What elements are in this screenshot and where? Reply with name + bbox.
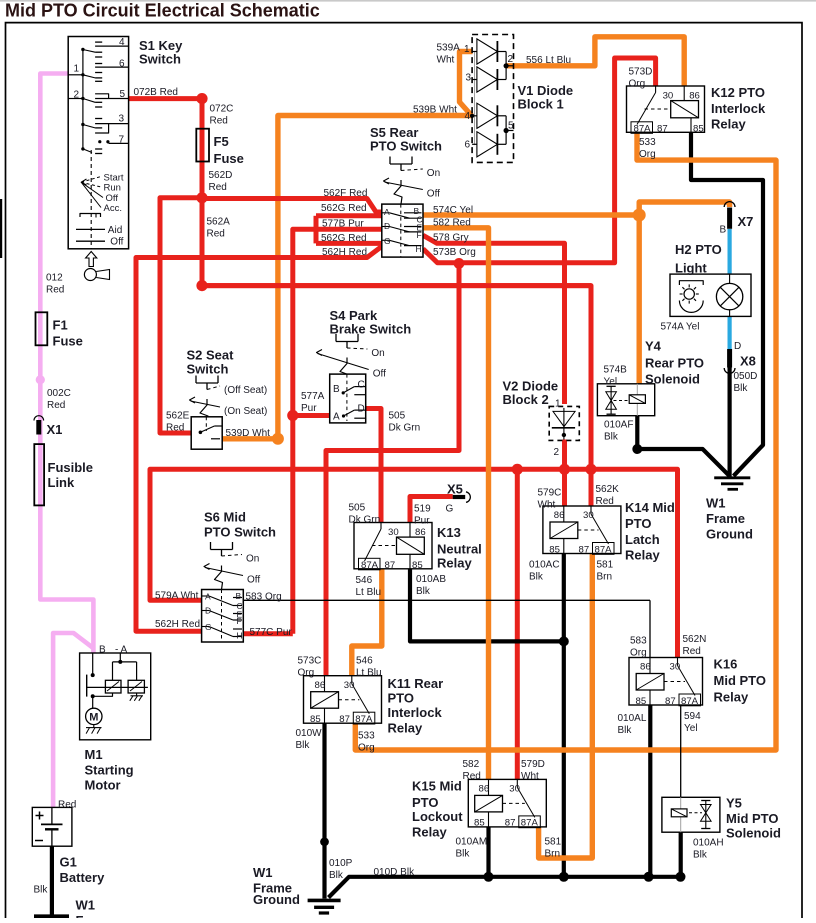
svg-text:PTO Switch: PTO Switch xyxy=(370,139,442,154)
svg-text:K15 Mid: K15 Mid xyxy=(412,778,462,793)
svg-text:Fuse: Fuse xyxy=(214,151,244,166)
svg-text:Light: Light xyxy=(675,261,707,276)
svg-text:Y5: Y5 xyxy=(726,796,742,811)
svg-text:574B: 574B xyxy=(604,365,628,376)
svg-text:A: A xyxy=(205,592,211,602)
svg-text:010P: 010P xyxy=(329,858,353,869)
svg-text:86: 86 xyxy=(640,662,651,673)
svg-text:3: 3 xyxy=(119,113,125,124)
svg-text:B: B xyxy=(333,384,340,395)
svg-text:7: 7 xyxy=(119,135,125,146)
svg-text:072B Red: 072B Red xyxy=(134,87,178,98)
svg-text:579A Wht: 579A Wht xyxy=(155,591,199,602)
svg-text:2: 2 xyxy=(74,90,80,101)
svg-text:87A: 87A xyxy=(595,544,613,555)
svg-text:G: G xyxy=(205,622,212,632)
svg-text:86: 86 xyxy=(315,680,326,691)
svg-text:5: 5 xyxy=(120,89,126,100)
svg-text:5: 5 xyxy=(508,121,514,132)
svg-text:1: 1 xyxy=(74,64,80,75)
svg-text:546: 546 xyxy=(356,656,373,667)
svg-text:H: H xyxy=(416,244,422,254)
svg-text:87: 87 xyxy=(339,714,350,725)
svg-text:3: 3 xyxy=(466,73,472,84)
svg-text:Fuse: Fuse xyxy=(53,334,83,349)
svg-text:Blk: Blk xyxy=(604,432,619,443)
svg-text:4: 4 xyxy=(465,111,471,122)
svg-text:562G Red: 562G Red xyxy=(321,233,367,244)
svg-text:Interlock: Interlock xyxy=(711,101,766,116)
svg-text:Acc.: Acc. xyxy=(104,203,122,214)
svg-text:574A Yel: 574A Yel xyxy=(661,322,700,333)
svg-text:1: 1 xyxy=(464,44,470,55)
svg-text:505: 505 xyxy=(389,411,406,422)
svg-text:010AM: 010AM xyxy=(456,836,488,847)
svg-text:M: M xyxy=(89,712,98,724)
svg-text:(Off Seat): (Off Seat) xyxy=(224,385,267,396)
svg-text:B: B xyxy=(720,224,727,235)
svg-text:533: 533 xyxy=(639,137,656,148)
svg-text:Wht: Wht xyxy=(538,500,556,511)
svg-text:W1: W1 xyxy=(76,898,96,913)
svg-text:012: 012 xyxy=(46,273,63,284)
svg-text:Interlock: Interlock xyxy=(388,705,443,720)
svg-text:Red: Red xyxy=(166,422,184,433)
svg-text:30: 30 xyxy=(670,662,681,673)
svg-text:B: B xyxy=(99,644,106,655)
svg-text:87: 87 xyxy=(505,818,516,829)
svg-text:Red: Red xyxy=(210,116,228,127)
svg-text:594: 594 xyxy=(684,711,701,722)
svg-text:K16: K16 xyxy=(714,656,738,671)
svg-text:Red: Red xyxy=(463,771,481,782)
svg-text:Relay: Relay xyxy=(437,556,472,571)
svg-text:Link: Link xyxy=(48,475,75,490)
svg-text:A: A xyxy=(384,207,390,217)
svg-text:87A: 87A xyxy=(634,123,652,134)
svg-text:30: 30 xyxy=(388,527,399,538)
svg-text:010D Blk: 010D Blk xyxy=(374,867,416,878)
svg-text:Wht: Wht xyxy=(521,771,539,782)
svg-text:Solenoid: Solenoid xyxy=(726,826,781,841)
svg-text:Yel: Yel xyxy=(684,723,698,734)
svg-text:86: 86 xyxy=(479,784,490,795)
svg-text:Starting: Starting xyxy=(85,763,134,778)
svg-text:539D Wht: 539D Wht xyxy=(226,428,271,439)
svg-text:Blk: Blk xyxy=(296,740,311,751)
svg-text:562K: 562K xyxy=(596,484,620,495)
svg-text:Mid PTO Circuit Electrical Sch: Mid PTO Circuit Electrical Schematic xyxy=(5,1,320,21)
svg-text:X7: X7 xyxy=(738,214,754,229)
svg-text:Off: Off xyxy=(427,189,440,200)
svg-text:562H Red: 562H Red xyxy=(322,247,367,258)
svg-text:010AC: 010AC xyxy=(529,560,560,571)
svg-text:87: 87 xyxy=(657,123,668,134)
svg-text:Red: Red xyxy=(683,646,701,657)
svg-text:505: 505 xyxy=(349,503,366,514)
svg-text:562D: 562D xyxy=(209,170,233,181)
svg-text:519: 519 xyxy=(414,504,431,515)
svg-text:Pur: Pur xyxy=(414,516,430,527)
svg-text:Mid PTO: Mid PTO xyxy=(726,811,778,826)
svg-text:072C: 072C xyxy=(210,104,234,115)
svg-text:M1: M1 xyxy=(85,747,103,762)
svg-text:6: 6 xyxy=(465,140,471,151)
svg-text:562N: 562N xyxy=(683,634,707,645)
svg-text:H2 PTO: H2 PTO xyxy=(675,242,722,257)
svg-text:Switch: Switch xyxy=(139,52,181,67)
svg-text:K14 Mid: K14 Mid xyxy=(625,500,675,515)
svg-text:Blk: Blk xyxy=(529,572,544,583)
svg-text:Mid PTO: Mid PTO xyxy=(714,673,766,688)
svg-text:S2 Seat: S2 Seat xyxy=(187,348,235,363)
svg-text:010AL: 010AL xyxy=(618,713,647,724)
svg-text:Org: Org xyxy=(639,149,656,160)
svg-text:85: 85 xyxy=(693,123,704,134)
svg-text:C: C xyxy=(358,380,365,391)
svg-text:X8: X8 xyxy=(740,354,756,369)
svg-text:579D: 579D xyxy=(521,759,545,770)
svg-text:Org: Org xyxy=(629,79,646,90)
svg-text:Relay: Relay xyxy=(714,689,749,704)
svg-text:Blk: Blk xyxy=(456,848,471,859)
svg-text:Off: Off xyxy=(110,237,123,248)
svg-text:86: 86 xyxy=(689,90,700,101)
svg-text:2: 2 xyxy=(554,447,560,458)
svg-text:010W: 010W xyxy=(296,728,323,739)
svg-text:Switch: Switch xyxy=(187,362,229,377)
svg-text:Fusible: Fusible xyxy=(48,460,94,475)
svg-text:Dk Grn: Dk Grn xyxy=(389,423,421,434)
svg-text:85: 85 xyxy=(412,560,423,571)
svg-text:Yel: Yel xyxy=(604,377,618,388)
svg-text:G: G xyxy=(384,236,391,246)
svg-text:Red: Red xyxy=(209,182,227,193)
svg-text:Blk: Blk xyxy=(416,586,431,597)
svg-text:Solenoid: Solenoid xyxy=(645,372,700,387)
svg-text:K13: K13 xyxy=(437,525,461,540)
svg-text:4: 4 xyxy=(119,37,125,48)
svg-text:6: 6 xyxy=(119,59,125,70)
svg-text:W1: W1 xyxy=(706,496,726,511)
svg-text:Org: Org xyxy=(358,742,375,753)
svg-text:PTO Switch: PTO Switch xyxy=(204,525,276,540)
svg-text:573D: 573D xyxy=(629,67,653,78)
svg-text:582: 582 xyxy=(463,759,480,770)
svg-text:Y4: Y4 xyxy=(645,339,662,354)
svg-text:B: B xyxy=(236,591,242,601)
svg-text:F: F xyxy=(237,616,242,626)
svg-text:S6 Mid: S6 Mid xyxy=(204,510,246,525)
svg-text:578 Gry: 578 Gry xyxy=(433,233,469,244)
svg-text:87A: 87A xyxy=(361,560,379,571)
svg-text:30: 30 xyxy=(583,510,594,521)
svg-text:Org: Org xyxy=(630,648,647,659)
svg-text:533: 533 xyxy=(358,730,375,741)
svg-text:Red: Red xyxy=(58,799,76,810)
svg-text:W1: W1 xyxy=(253,865,273,880)
svg-text:Lockout: Lockout xyxy=(412,809,463,824)
svg-text:010AF: 010AF xyxy=(604,420,633,431)
svg-text:582 Red: 582 Red xyxy=(433,217,471,228)
svg-text:85: 85 xyxy=(549,544,560,555)
svg-text:D: D xyxy=(384,221,390,231)
svg-text:577B Pur: 577B Pur xyxy=(322,218,364,229)
svg-text:D: D xyxy=(205,606,211,616)
svg-text:Red: Red xyxy=(46,285,64,296)
svg-text:(On Seat): (On Seat) xyxy=(224,406,267,417)
svg-text:577A: 577A xyxy=(301,391,325,402)
svg-text:K11 Rear: K11 Rear xyxy=(388,676,444,691)
svg-text:Org: Org xyxy=(298,668,315,679)
svg-text:K12 PTO: K12 PTO xyxy=(711,85,765,100)
svg-text:D: D xyxy=(358,404,365,415)
svg-text:556 Lt Blu: 556 Lt Blu xyxy=(526,55,571,66)
svg-text:87: 87 xyxy=(665,696,676,707)
svg-text:Ground: Ground xyxy=(706,527,753,542)
svg-text:X1: X1 xyxy=(47,422,63,437)
svg-text:Blk: Blk xyxy=(693,849,708,860)
svg-text:30: 30 xyxy=(663,90,674,101)
svg-text:Red: Red xyxy=(47,400,65,411)
svg-text:On: On xyxy=(371,348,384,359)
svg-text:Relay: Relay xyxy=(711,117,746,132)
svg-text:PTO: PTO xyxy=(388,691,415,706)
svg-text:577C Pur: 577C Pur xyxy=(250,627,293,638)
svg-text:On: On xyxy=(427,168,440,179)
svg-text:Off: Off xyxy=(373,369,386,380)
svg-text:Relay: Relay xyxy=(625,548,660,563)
svg-text:Battery: Battery xyxy=(60,870,106,885)
svg-text:A: A xyxy=(333,412,340,423)
svg-text:Lt Blu: Lt Blu xyxy=(356,587,382,598)
svg-text:85: 85 xyxy=(310,714,321,725)
svg-text:Brake Switch: Brake Switch xyxy=(330,322,412,337)
svg-text:87: 87 xyxy=(385,560,396,571)
svg-text:F5: F5 xyxy=(214,134,229,149)
svg-text:Blk: Blk xyxy=(618,725,633,736)
svg-text:30: 30 xyxy=(344,680,355,691)
svg-text:562G Red: 562G Red xyxy=(321,203,367,214)
svg-text:546: 546 xyxy=(356,575,373,586)
svg-text:Wht: Wht xyxy=(437,55,455,66)
svg-text:F: F xyxy=(417,230,422,240)
svg-text:Frame: Frame xyxy=(76,913,115,918)
svg-text:562A: 562A xyxy=(207,217,231,228)
svg-text:Rear PTO: Rear PTO xyxy=(645,356,704,371)
svg-text:H: H xyxy=(237,631,243,641)
svg-text:Blk: Blk xyxy=(329,870,344,881)
svg-text:2: 2 xyxy=(508,54,514,65)
svg-text:581: 581 xyxy=(597,560,614,571)
svg-text:539A: 539A xyxy=(437,43,461,54)
svg-text:On: On xyxy=(246,554,259,565)
svg-text:Brn: Brn xyxy=(545,849,561,860)
svg-text:Lt Blu: Lt Blu xyxy=(356,668,382,679)
svg-text:Latch: Latch xyxy=(625,532,660,547)
svg-text:PTO: PTO xyxy=(412,795,439,810)
svg-text:583: 583 xyxy=(630,636,647,647)
svg-text:X5: X5 xyxy=(447,482,463,497)
svg-text:Blk: Blk xyxy=(34,885,49,896)
svg-text:010AH: 010AH xyxy=(693,837,724,848)
svg-text:86: 86 xyxy=(554,510,565,521)
svg-text:562E: 562E xyxy=(166,410,190,421)
svg-text:583 Org: 583 Org xyxy=(246,592,282,603)
svg-text:Block 2: Block 2 xyxy=(503,392,549,407)
svg-text:Ground: Ground xyxy=(253,892,300,907)
svg-text:G1: G1 xyxy=(60,855,77,870)
svg-text:PTO: PTO xyxy=(625,516,652,531)
svg-text:581: 581 xyxy=(545,837,562,848)
svg-text:Motor: Motor xyxy=(85,778,121,793)
svg-text:574C Yel: 574C Yel xyxy=(433,205,473,216)
svg-text:539B Wht: 539B Wht xyxy=(413,105,457,116)
svg-text:Blk: Blk xyxy=(734,383,749,394)
svg-text:85: 85 xyxy=(636,696,647,707)
svg-text:30: 30 xyxy=(509,784,520,795)
svg-text:G: G xyxy=(446,504,454,515)
svg-text:Off: Off xyxy=(247,575,260,586)
svg-text:85: 85 xyxy=(474,818,485,829)
svg-text:87A: 87A xyxy=(681,696,699,707)
svg-text:D: D xyxy=(734,341,741,352)
svg-text:562H Red: 562H Red xyxy=(155,619,200,630)
svg-text:Red: Red xyxy=(596,496,614,507)
svg-text:Red: Red xyxy=(207,229,225,240)
svg-text:573B Org: 573B Org xyxy=(433,247,476,258)
svg-text:562F Red: 562F Red xyxy=(324,188,368,199)
svg-text:002C: 002C xyxy=(47,388,71,399)
svg-text:Relay: Relay xyxy=(388,721,423,736)
svg-text:87A: 87A xyxy=(355,714,373,725)
svg-text:87: 87 xyxy=(579,544,590,555)
svg-text:Aid: Aid xyxy=(108,225,122,236)
svg-text:87A: 87A xyxy=(521,818,539,829)
svg-text:Dk Grn: Dk Grn xyxy=(349,515,381,526)
svg-text:Pur: Pur xyxy=(301,403,317,414)
svg-text:010AB: 010AB xyxy=(416,574,446,585)
svg-text:Neutral: Neutral xyxy=(437,542,482,557)
svg-text:86: 86 xyxy=(415,527,426,538)
svg-text:573C: 573C xyxy=(298,656,322,667)
svg-text:Brn: Brn xyxy=(597,572,613,583)
svg-text:Block 1: Block 1 xyxy=(518,97,564,112)
svg-text:- A: - A xyxy=(115,644,128,655)
svg-text:050D: 050D xyxy=(734,371,758,382)
svg-text:1: 1 xyxy=(555,399,561,410)
svg-text:Relay: Relay xyxy=(412,825,447,840)
svg-text:Frame: Frame xyxy=(706,511,745,526)
svg-text:F1: F1 xyxy=(53,318,68,333)
svg-text:579C: 579C xyxy=(538,488,562,499)
